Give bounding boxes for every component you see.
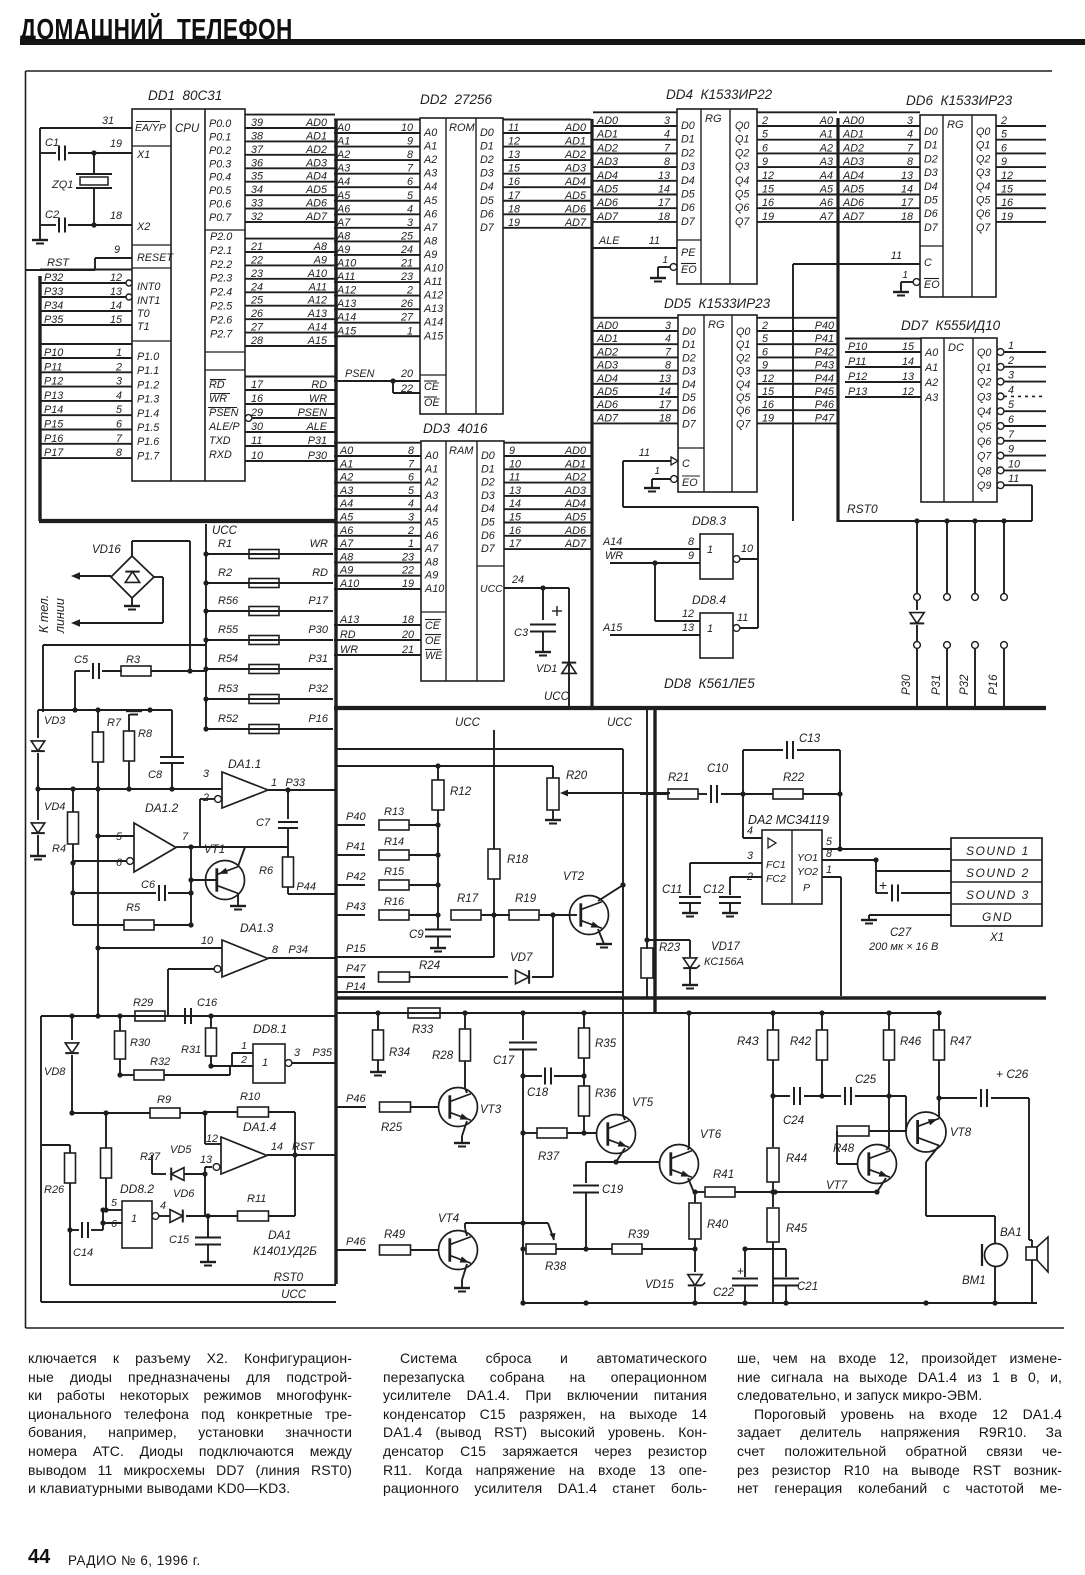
svg-text:PE: PE — [681, 247, 696, 259]
resistor R48 — [833, 1126, 906, 1164]
svg-text:P10: P10 — [848, 341, 867, 353]
svg-text:P2.4: P2.4 — [210, 287, 232, 299]
svg-text:RAM: RAM — [449, 445, 474, 457]
svg-text:Q4: Q4 — [977, 406, 991, 418]
svg-text:13: 13 — [902, 371, 914, 383]
bus ladder DD5 outputs P40-P47 — [757, 318, 838, 425]
svg-text:YO1: YO1 — [797, 852, 818, 864]
svg-text:A9: A9 — [336, 244, 350, 256]
svg-text:A1: A1 — [423, 141, 437, 153]
svg-text:6: 6 — [1001, 142, 1007, 154]
svg-text:AD0: AD0 — [564, 122, 586, 134]
svg-text:DD4 К1533ИР22: DD4 К1533ИР22 — [666, 87, 773, 102]
wire DA2 pin1 — [822, 864, 841, 996]
DD1 pin label EA/VP — [135, 122, 166, 135]
svg-text:R44: R44 — [786, 1153, 807, 1165]
svg-text:P1.4: P1.4 — [137, 408, 159, 420]
svg-text:Q6: Q6 — [977, 436, 991, 448]
wire DA2 pin2 — [730, 871, 762, 895]
svg-text:Q5: Q5 — [735, 189, 750, 201]
net label К тел. линии — [37, 595, 67, 634]
svg-text:A6: A6 — [423, 208, 437, 220]
svg-text:22: 22 — [250, 254, 263, 266]
svg-text:VD8: VD8 — [44, 1066, 66, 1078]
svg-text:DD8.1: DD8.1 — [253, 1022, 287, 1036]
svg-text:3: 3 — [664, 115, 670, 127]
svg-text:12: 12 — [762, 373, 774, 385]
resistor R47 — [934, 1013, 972, 1112]
svg-text:7: 7 — [182, 831, 189, 843]
svg-text:D7: D7 — [481, 543, 496, 555]
svg-text:A3: A3 — [924, 392, 938, 404]
svg-text:A7: A7 — [339, 538, 354, 550]
svg-text:A0: A0 — [924, 347, 938, 359]
svg-text:P12: P12 — [44, 376, 63, 388]
IC DD2 27256 ROM box — [420, 118, 503, 414]
capacitor C9 — [409, 929, 451, 952]
wire P15 row — [337, 943, 494, 957]
svg-text:5: 5 — [762, 333, 769, 345]
bus ladder DD3 address — [334, 443, 421, 590]
svg-text:UCC: UCC — [455, 717, 481, 729]
svg-text:C10: C10 — [707, 763, 729, 775]
DD3 RAM label — [449, 445, 474, 457]
svg-text:25: 25 — [250, 295, 264, 307]
svg-text:8: 8 — [272, 944, 278, 956]
svg-text:A3: A3 — [339, 485, 353, 497]
op IC DD1 label — [148, 88, 222, 103]
svg-text:R34: R34 — [389, 1047, 410, 1059]
wire DA2 pin4 — [743, 794, 762, 838]
svg-text:D1: D1 — [681, 134, 695, 146]
resistor R38 — [520, 1244, 586, 1273]
svg-text:R55: R55 — [218, 624, 239, 636]
svg-text:R40: R40 — [707, 1219, 729, 1231]
svg-text:AD1: AD1 — [305, 130, 327, 142]
gate DD8.3 label — [692, 514, 726, 528]
svg-text:D0: D0 — [682, 326, 696, 338]
wire DA2 pin5 to SOUND1 — [822, 794, 951, 852]
svg-text:AD4: AD4 — [564, 498, 586, 510]
bus ladder DD6 inputs AD0-AD7 — [839, 112, 920, 223]
svg-text:23: 23 — [401, 551, 414, 563]
resistor R2 — [203, 567, 333, 588]
wire RST to RESET — [26, 244, 132, 270]
transistor VT3 — [439, 1088, 502, 1147]
svg-text:RG: RG — [947, 119, 964, 131]
resistor R10 — [205, 1091, 298, 1158]
transistor VT4 — [438, 1213, 556, 1292]
svg-text:6: 6 — [762, 346, 768, 358]
svg-text:13: 13 — [508, 149, 520, 161]
svg-text:Q5: Q5 — [976, 195, 991, 207]
svg-text:AD4: AD4 — [305, 171, 327, 183]
svg-text:8: 8 — [407, 149, 413, 161]
svg-text:AD3: AD3 — [564, 485, 586, 497]
svg-text:4: 4 — [664, 129, 670, 141]
svg-text:AD6: AD6 — [596, 399, 618, 411]
svg-text:R14: R14 — [384, 836, 404, 848]
capacitor C7 — [256, 790, 298, 847]
IC DD5 label — [664, 296, 771, 311]
svg-text:R39: R39 — [628, 1229, 650, 1241]
svg-text:DA1.1: DA1.1 — [228, 757, 261, 771]
svg-text:C9: C9 — [409, 929, 424, 941]
DD1 INT0 inversion circle — [126, 280, 132, 300]
svg-text:AD6: AD6 — [596, 197, 618, 209]
svg-text:P2.5: P2.5 — [210, 301, 233, 313]
svg-text:A10: A10 — [339, 578, 359, 590]
op-amp DA1.1 — [202, 757, 336, 808]
DD4 EO inversion circle and ground — [650, 255, 677, 282]
IC DD7 K555ID10 box — [921, 338, 997, 502]
svg-text:VT3: VT3 — [480, 1104, 502, 1116]
svg-text:A0: A0 — [336, 122, 350, 134]
svg-text:AD1: AD1 — [842, 129, 864, 141]
svg-text:7: 7 — [408, 458, 415, 470]
svg-text:A1: A1 — [339, 458, 353, 470]
svg-text:13: 13 — [682, 622, 694, 634]
svg-text:AD5: AD5 — [842, 184, 865, 196]
heavy vertical divider V2 — [653, 708, 656, 1013]
svg-text:A4: A4 — [336, 176, 350, 188]
svg-text:19: 19 — [110, 138, 122, 150]
svg-text:12: 12 — [902, 386, 914, 398]
svg-text:P40: P40 — [346, 811, 366, 823]
svg-text:A5: A5 — [819, 184, 834, 196]
svg-text:ZQ1: ZQ1 — [51, 179, 73, 191]
svg-text:A1: A1 — [924, 362, 938, 374]
svg-text:VD6: VD6 — [173, 1188, 195, 1200]
wire bridge top to C5 row — [132, 541, 193, 674]
IC DD4 K1533IR22 box — [677, 109, 757, 284]
wire R7 column down — [95, 789, 100, 1019]
svg-text:DD8.2: DD8.2 — [120, 1182, 154, 1196]
DD1 PSEN inversion circle — [245, 415, 252, 422]
svg-text:P33: P33 — [285, 777, 305, 789]
svg-text:A0: A0 — [423, 127, 437, 139]
svg-text:R6: R6 — [259, 865, 274, 877]
svg-text:10: 10 — [401, 122, 413, 134]
IC DA2 MC34119 box — [762, 830, 822, 904]
svg-text:14: 14 — [509, 498, 521, 510]
svg-text:DD8.4: DD8.4 — [692, 593, 726, 607]
resistor R14 — [337, 836, 441, 860]
svg-text:P32: P32 — [308, 683, 328, 695]
heavy horizontal divider H2 — [334, 706, 1046, 710]
net label UCC under VD1 — [544, 691, 570, 703]
svg-text:A3: A3 — [424, 490, 438, 502]
svg-text:3: 3 — [203, 768, 209, 780]
svg-text:C24: C24 — [783, 1115, 804, 1127]
svg-text:2: 2 — [406, 285, 413, 297]
svg-text:RD: RD — [312, 567, 328, 579]
wire DD3 VCC pin 24 — [504, 574, 569, 591]
svg-text:C8: C8 — [148, 769, 163, 781]
svg-text:R15: R15 — [384, 866, 405, 878]
resistor R24 — [337, 960, 508, 982]
svg-text:AD2: AD2 — [564, 149, 586, 161]
svg-text:AD3: AD3 — [596, 156, 618, 168]
svg-text:VD3: VD3 — [44, 715, 66, 727]
svg-text:Q2: Q2 — [977, 377, 991, 389]
svg-text:A4: A4 — [339, 498, 353, 510]
svg-text:P11: P11 — [44, 361, 62, 373]
capacitor C27 — [868, 871, 951, 953]
svg-text:DD8.3: DD8.3 — [692, 514, 726, 528]
gate DD8.1 label — [253, 1022, 287, 1036]
svg-text:P40: P40 — [815, 320, 834, 332]
svg-text:3: 3 — [116, 376, 122, 388]
svg-text:D3: D3 — [682, 366, 696, 378]
svg-text:UCC: UCC — [281, 1289, 307, 1301]
svg-text:C13: C13 — [799, 733, 821, 745]
svg-text:1: 1 — [654, 466, 660, 477]
resistor R42 — [790, 1013, 828, 1099]
svg-text:PSEN: PSEN — [298, 407, 328, 419]
svg-text:A7: A7 — [424, 543, 439, 555]
svg-text:D4: D4 — [681, 175, 695, 187]
svg-text:P12: P12 — [848, 371, 867, 383]
heavy vertical divider V1 — [334, 120, 337, 1284]
DD4 RG label — [705, 113, 722, 125]
svg-text:17: 17 — [901, 197, 914, 209]
svg-text:КС156А: КС156А — [704, 956, 744, 968]
svg-text:5: 5 — [407, 190, 414, 202]
svg-text:1: 1 — [707, 544, 713, 556]
IC DA1 name — [253, 1228, 317, 1258]
svg-text:1: 1 — [271, 777, 277, 789]
svg-text:К1401УД2Б: К1401УД2Б — [253, 1244, 317, 1258]
svg-text:P1.5: P1.5 — [137, 422, 160, 434]
svg-text:R28: R28 — [432, 1050, 454, 1062]
svg-text:11: 11 — [251, 435, 262, 447]
bus ladder DD1 P10-P17 — [40, 344, 132, 459]
resistor R40 — [689, 1203, 729, 1272]
svg-text:16: 16 — [762, 399, 774, 411]
bus ladder DD2 data out AD0-AD7 — [503, 120, 591, 229]
wire DD5 C clock input — [623, 447, 758, 559]
svg-text:A14: A14 — [423, 317, 443, 329]
svg-text:A5: A5 — [424, 517, 439, 529]
svg-text:P2.0: P2.0 — [210, 231, 232, 243]
svg-text:+ C26: + C26 — [996, 1067, 1029, 1081]
svg-text:R38: R38 — [545, 1261, 567, 1273]
svg-text:AD5: AD5 — [305, 184, 328, 196]
resistor R35 — [579, 1013, 617, 1086]
svg-text:P1.7: P1.7 — [137, 450, 160, 462]
svg-text:8: 8 — [664, 156, 670, 168]
svg-text:4: 4 — [116, 390, 122, 402]
svg-text:D4: D4 — [924, 181, 938, 193]
svg-text:11: 11 — [891, 250, 902, 262]
svg-text:EO: EO — [682, 477, 698, 489]
svg-text:17: 17 — [251, 379, 264, 391]
svg-text:14: 14 — [901, 184, 913, 196]
svg-text:D7: D7 — [682, 418, 697, 430]
svg-text:D3: D3 — [924, 167, 938, 179]
net label P30 rotated — [901, 674, 913, 695]
svg-text:R32: R32 — [150, 1056, 170, 1068]
svg-text:AD7: AD7 — [596, 211, 619, 223]
svg-text:P42: P42 — [346, 871, 366, 883]
svg-text:C: C — [682, 458, 690, 470]
svg-text:21: 21 — [401, 644, 414, 656]
svg-text:7: 7 — [664, 142, 671, 154]
svg-text:R8: R8 — [138, 728, 153, 740]
svg-text:5: 5 — [408, 485, 415, 497]
svg-text:25: 25 — [400, 230, 414, 242]
capacitor C6 — [70, 879, 193, 901]
svg-text:D5: D5 — [480, 195, 495, 207]
svg-text:1: 1 — [131, 1213, 137, 1225]
svg-text:AD4: AD4 — [596, 373, 618, 385]
svg-text:VD16: VD16 — [92, 544, 121, 556]
svg-text:D2: D2 — [682, 352, 696, 364]
svg-text:P2.3: P2.3 — [210, 273, 232, 285]
svg-text:DA1: DA1 — [268, 1228, 291, 1242]
svg-text:P46: P46 — [815, 399, 834, 411]
ground crystal — [32, 225, 48, 244]
svg-text:AD7: AD7 — [564, 538, 587, 550]
svg-text:AD6: AD6 — [842, 197, 864, 209]
svg-text:A11: A11 — [308, 281, 327, 293]
svg-text:4: 4 — [747, 825, 753, 837]
svg-text:A10: A10 — [307, 268, 327, 280]
wire UCC vline to VT2 — [494, 728, 626, 1115]
svg-text:P0.1: P0.1 — [209, 131, 231, 143]
svg-text:AD2: AD2 — [305, 144, 327, 156]
svg-text:R3: R3 — [126, 654, 141, 666]
wire DA2 pin3 — [690, 850, 762, 895]
resistor R22 — [743, 772, 843, 799]
capacitor C21 — [745, 1249, 818, 1303]
resistor R13 — [337, 806, 441, 830]
bus ladder DD7 outputs Q0-Q9 — [997, 340, 1046, 489]
resistor R49 — [337, 1229, 439, 1255]
svg-text:12: 12 — [206, 1133, 218, 1145]
svg-text:8: 8 — [665, 360, 671, 372]
microphone BM1 — [926, 1216, 1022, 1303]
svg-text:RXD: RXD — [209, 449, 232, 461]
svg-text:Q2: Q2 — [735, 147, 749, 159]
svg-text:19: 19 — [762, 412, 774, 424]
svg-text:P2.1: P2.1 — [210, 245, 232, 257]
svg-text:AD7: AD7 — [842, 211, 865, 223]
svg-text:A15: A15 — [423, 330, 444, 342]
svg-text:P16: P16 — [308, 713, 328, 725]
capacitor C11 — [662, 884, 701, 917]
resistor R8 — [124, 711, 153, 792]
svg-text:P46: P46 — [346, 1236, 366, 1248]
svg-text:P0.2: P0.2 — [209, 145, 231, 157]
svg-text:AD1: AD1 — [596, 333, 618, 345]
svg-text:BA1: BA1 — [1000, 1227, 1022, 1239]
svg-text:C11: C11 — [662, 884, 682, 896]
svg-text:16: 16 — [762, 197, 774, 209]
svg-text:1: 1 — [262, 1057, 268, 1069]
svg-text:A1: A1 — [819, 129, 833, 141]
capacitor C16 — [185, 997, 218, 1024]
svg-text:A10: A10 — [424, 583, 444, 595]
svg-text:4: 4 — [907, 129, 913, 141]
svg-text:A6: A6 — [339, 525, 353, 537]
wire amp ground rail — [520, 1300, 1037, 1305]
svg-text:A8: A8 — [424, 556, 438, 568]
svg-text:AD0: AD0 — [596, 320, 618, 332]
svg-text:Q7: Q7 — [735, 216, 750, 228]
svg-text:WR: WR — [209, 393, 227, 405]
svg-text:8: 8 — [116, 447, 122, 459]
svg-text:33: 33 — [251, 198, 263, 210]
svg-text:C15: C15 — [169, 1234, 190, 1246]
resistor R9 — [72, 1094, 208, 1118]
svg-text:AD3: AD3 — [842, 156, 864, 168]
svg-text:6: 6 — [116, 857, 122, 869]
svg-text:OE: OE — [424, 397, 440, 409]
svg-text:R41: R41 — [713, 1169, 734, 1181]
svg-text:12: 12 — [762, 170, 774, 182]
IC DD8 K561LE5 label — [664, 676, 755, 691]
svg-text:3: 3 — [747, 850, 753, 862]
capacitor C5 — [72, 654, 99, 713]
svg-text:D3: D3 — [481, 490, 495, 502]
svg-text:C7: C7 — [256, 817, 271, 829]
svg-text:R56: R56 — [218, 595, 239, 607]
svg-text:R24: R24 — [419, 960, 440, 972]
svg-text:VT7: VT7 — [826, 1180, 848, 1192]
svg-text:P31: P31 — [931, 675, 943, 695]
svg-text:AD0: AD0 — [596, 115, 618, 127]
svg-text:P31: P31 — [308, 435, 327, 447]
svg-text:EO: EO — [924, 279, 940, 291]
svg-text:C5: C5 — [74, 654, 89, 666]
svg-text:A9: A9 — [423, 249, 437, 261]
svg-text:VD1: VD1 — [536, 663, 557, 675]
capacitor C13 — [743, 733, 840, 794]
wire rail y766 — [337, 763, 553, 778]
svg-text:Q3: Q3 — [977, 391, 991, 403]
svg-text:C22: C22 — [713, 1287, 735, 1299]
svg-text:R30: R30 — [130, 1037, 151, 1049]
svg-text:A13: A13 — [423, 303, 443, 315]
svg-text:A13: A13 — [339, 614, 359, 626]
svg-text:1: 1 — [408, 538, 414, 550]
svg-text:R35: R35 — [595, 1038, 617, 1050]
svg-text:P33: P33 — [44, 286, 63, 298]
svg-text:RD: RD — [340, 629, 356, 641]
resistor R46 — [884, 1013, 922, 1147]
svg-text:24: 24 — [511, 574, 524, 586]
IC DD3 label — [423, 421, 488, 436]
svg-text:19: 19 — [402, 578, 414, 590]
capacitor C22 — [695, 1246, 758, 1303]
svg-text:C21: C21 — [797, 1281, 818, 1293]
switch contact column P31 — [944, 521, 951, 708]
svg-text:Q3: Q3 — [976, 167, 990, 179]
svg-text:12: 12 — [508, 136, 520, 148]
bus ladder DD4 inputs AD0-AD7 — [593, 112, 677, 223]
svg-text:22: 22 — [400, 383, 413, 395]
svg-text:35: 35 — [251, 171, 264, 183]
svg-text:19: 19 — [1001, 211, 1013, 223]
svg-text:21: 21 — [400, 258, 413, 270]
svg-text:20: 20 — [400, 368, 413, 380]
svg-text:A8: A8 — [423, 235, 437, 247]
svg-text:DA1.2: DA1.2 — [145, 801, 179, 815]
svg-text:Q3: Q3 — [736, 366, 750, 378]
svg-text:C3: C3 — [514, 627, 529, 639]
